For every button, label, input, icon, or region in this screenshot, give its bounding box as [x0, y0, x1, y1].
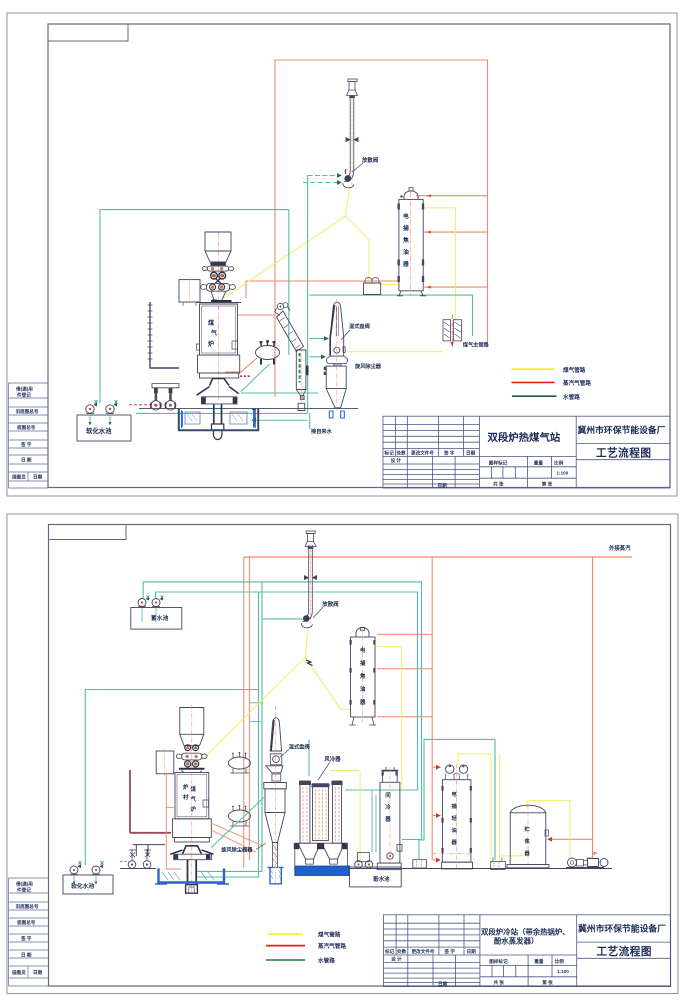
- svg-text:煤: 煤: [191, 785, 197, 793]
- sheet1 legend steam line: [512, 381, 555, 383]
- water to intercooler: [345, 789, 418, 791]
- svg-text:日 期: 日 期: [21, 952, 32, 959]
- svg-text:旧底图总号: 旧底图总号: [16, 408, 39, 415]
- water stubs at downcomers: [250, 703, 262, 722]
- sheet2 outer border: [7, 514, 678, 994]
- steam branch tar tower 3: [377, 716, 432, 718]
- svg-text:借(通)用: 借(通)用: [15, 881, 33, 888]
- gas main label: [463, 341, 490, 349]
- sheet1 outer border: [7, 13, 677, 496]
- svg-text:酚水蒸发器）: 酚水蒸发器）: [494, 937, 538, 946]
- insulated downpipe: [148, 302, 180, 368]
- phenol water pool: [350, 853, 402, 887]
- svg-text:气: 气: [210, 329, 217, 337]
- electric tar precipitator: [397, 188, 426, 296]
- gas blower set: [566, 852, 608, 868]
- svg-text:日 期: 日 期: [21, 457, 32, 464]
- double bell valve assembly: [201, 262, 235, 303]
- wet disc valve 2 label: [280, 743, 310, 758]
- steam branch to storage tank: [548, 838, 593, 840]
- svg-text:湿式盘阀: 湿式盘阀: [289, 743, 310, 751]
- gas pipe V right to tower: [305, 658, 351, 710]
- svg-text:轻: 轻: [452, 814, 458, 822]
- water pipe to flare lower: [303, 182, 341, 184]
- intercooler label: [384, 791, 391, 823]
- svg-text:软化水池: 软化水池: [86, 426, 112, 435]
- svg-text:煤气管路: 煤气管路: [563, 366, 586, 374]
- softened water pool: [77, 415, 131, 441]
- ground line mid: [120, 868, 156, 870]
- furnace gas producer: [196, 303, 241, 379]
- storage tank label: [524, 825, 531, 857]
- svg-text:水管路: 水管路: [562, 393, 580, 401]
- feed valves: [151, 384, 179, 411]
- svg-text:水管路: 水管路: [317, 957, 335, 965]
- svg-text:放散阀: 放散阀: [361, 156, 379, 164]
- water box top right: [419, 739, 495, 860]
- sheet1 top-left box: [48, 24, 128, 41]
- steam branch tar tower 1: [377, 633, 432, 635]
- cyclone assembly 2 spike: [264, 706, 287, 884]
- svg-text:煤: 煤: [208, 319, 214, 327]
- gas pipe tower down to cooler: [375, 646, 402, 790]
- svg-text:风冷器: 风冷器: [324, 755, 341, 763]
- ground line right: [294, 868, 612, 870]
- sheet1 legend water line: [512, 395, 557, 397]
- svg-text:借(通)用: 借(通)用: [15, 386, 33, 393]
- inclined conveyor duct: [275, 303, 304, 352]
- sheet2 title block: [384, 915, 671, 987]
- gas pipe stack downcomer: [224, 186, 350, 298]
- sheet1 legend gas line: [512, 368, 555, 370]
- svg-text:日期: 日期: [33, 474, 43, 481]
- svg-text:冀州市环保节能设备厂: 冀州市环保节能设备厂: [578, 923, 666, 934]
- svg-text:气: 气: [190, 795, 197, 803]
- tap water stub: [309, 413, 311, 429]
- svg-text:煤气管路: 煤气管路: [318, 931, 341, 939]
- furnace 2 body: [173, 773, 212, 843]
- release valve label: [352, 156, 379, 172]
- svg-text:煤气主管路: 煤气主管路: [463, 341, 490, 349]
- water pipe to flare top: [308, 175, 341, 177]
- steam arrow into tower base: [433, 859, 440, 861]
- steam drop at furnace left: [166, 774, 181, 869]
- svg-text:工艺流程图: 工艺流程图: [596, 447, 651, 460]
- air cooler label: [318, 755, 341, 780]
- svg-text:油: 油: [360, 685, 366, 693]
- svg-text:焦: 焦: [402, 236, 409, 244]
- svg-text:蓄水池: 蓄水池: [151, 614, 169, 622]
- water line to flare: [197, 582, 303, 872]
- furnace 2 ash bowl: [170, 846, 213, 893]
- svg-text:间: 间: [385, 791, 391, 799]
- water near pool lines: [372, 790, 376, 852]
- water seal basin 2: [155, 868, 229, 884]
- svg-text:电: 电: [403, 212, 409, 220]
- svg-text:日期: 日期: [33, 969, 43, 976]
- air cooler frame: [294, 781, 348, 867]
- svg-text:酚水池: 酚水池: [373, 875, 390, 883]
- svg-text:器: 器: [524, 849, 531, 857]
- svg-text:器: 器: [451, 838, 458, 846]
- svg-text:器: 器: [384, 815, 391, 823]
- light tar catcher label: [451, 790, 458, 846]
- gas pipe cooler loop: [330, 770, 360, 860]
- water seal tank: [179, 408, 258, 430]
- sheet1 left margin block: [9, 383, 49, 488]
- svg-text:底图总号: 底图总号: [17, 424, 36, 431]
- svg-text:冷: 冷: [385, 803, 391, 811]
- steam drum outlet diagonal: [225, 358, 257, 372]
- svg-text:签 字: 签 字: [20, 441, 32, 448]
- sheet2 inner frame: [49, 525, 671, 987]
- wet disc valve label: [341, 322, 370, 340]
- water main to gas header: [309, 295, 472, 336]
- steam downcomer pair left: [243, 557, 245, 868]
- gas pipe flare V left: [202, 630, 308, 760]
- steam branch long to furnace: [246, 281, 399, 298]
- flare stack: [343, 79, 359, 188]
- flare stack 2: [301, 531, 317, 628]
- steam downcomer right: [586, 557, 593, 858]
- svg-text:捕: 捕: [403, 224, 409, 232]
- svg-text:放散阀: 放散阀: [321, 600, 339, 608]
- svg-text:电: 电: [452, 790, 458, 798]
- gas pipe branch to seal tank: [346, 216, 370, 280]
- steam branch to tar precipitator top: [416, 195, 488, 197]
- pedestal box left: [413, 860, 427, 868]
- svg-text:器: 器: [359, 698, 366, 706]
- furnace 2 centerline: [191, 705, 193, 893]
- tar precipitator 2 label: [359, 646, 366, 706]
- water second downcomer: [197, 592, 259, 877]
- tar precipitator label: [402, 212, 409, 268]
- water arrow into skirt: [309, 356, 325, 358]
- svg-text:焦: 焦: [359, 672, 366, 680]
- svg-text:外接蒸汽: 外接蒸汽: [609, 544, 631, 552]
- waste heat drum lower: [228, 805, 250, 826]
- water main upper: [143, 582, 421, 840]
- water into air cooler: [308, 739, 310, 776]
- sheet1 title block: [383, 416, 670, 488]
- small seal tank: [364, 278, 381, 295]
- water diagonal bowl to drum: [241, 364, 270, 392]
- external steam main: [244, 556, 632, 558]
- steam crossline tower bottom: [432, 853, 471, 855]
- waste heat drum upper: [228, 752, 250, 773]
- pedestal box right: [491, 857, 506, 869]
- svg-text:电: 电: [360, 646, 366, 654]
- svg-text:炉: 炉: [208, 340, 214, 348]
- steam branch tar tower 2: [377, 668, 432, 670]
- coal hopper: [205, 232, 231, 262]
- svg-text:描图员: 描图员: [12, 969, 26, 976]
- gas pipe tar precip bottom: [381, 284, 398, 286]
- gas pipe tank to gas main: [423, 208, 455, 319]
- insulated stub furnace right: [240, 375, 251, 377]
- reservoir pool: [131, 596, 182, 630]
- svg-text:油: 油: [452, 826, 457, 834]
- pool pumps: [86, 400, 118, 426]
- steam arrow into tower side: [433, 815, 440, 817]
- tap water label: [311, 427, 333, 435]
- cyclone dust collector: [324, 366, 347, 418]
- water diagonal basin to cyclone: [211, 798, 263, 848]
- sheet2 legend gas line: [268, 933, 303, 935]
- gas break symbol: [306, 660, 313, 666]
- release valve 2 label: [313, 600, 339, 618]
- furnace side box: [179, 278, 200, 307]
- svg-text:焦: 焦: [525, 837, 531, 845]
- furnace 2 label: [183, 783, 197, 813]
- steam branch to tar precipitator side: [424, 231, 488, 233]
- svg-text:衬: 衬: [183, 793, 189, 801]
- steam downcomer mid: [431, 557, 433, 860]
- svg-text:炉: 炉: [183, 783, 189, 791]
- steam pipe main loop: [275, 60, 488, 397]
- water second run: [252, 419, 308, 421]
- storage tank: [507, 804, 549, 868]
- furnace label: [208, 319, 217, 348]
- air cooler blue base: [295, 866, 350, 876]
- svg-text:双段炉热煤气站: 双段炉热煤气站: [488, 431, 561, 444]
- svg-text:贮: 贮: [525, 825, 531, 833]
- water branch into wet valve: [309, 338, 328, 340]
- electric tar precipitator 2: [349, 628, 376, 726]
- equipment ground line: [139, 408, 358, 410]
- water main lower: [156, 592, 418, 790]
- steam arrow into dome: [432, 766, 440, 768]
- gas offtake cyclone to header: [345, 351, 443, 353]
- svg-text:工艺流程图: 工艺流程图: [597, 945, 652, 958]
- svg-text:件登记: 件登记: [17, 887, 31, 894]
- steam diagonals furnace to cyclone: [211, 823, 263, 852]
- furnace 2 side box: [156, 749, 174, 776]
- coal hopper 2: [180, 708, 204, 746]
- bell valve assembly 2: [176, 745, 207, 773]
- electric light tar catcher: [441, 764, 472, 869]
- svg-text:捕: 捕: [452, 802, 458, 810]
- svg-text:捕: 捕: [360, 659, 366, 667]
- water left loop: [85, 690, 258, 866]
- gas pipe to light tar catcher: [458, 754, 491, 765]
- svg-text:炉: 炉: [191, 805, 197, 813]
- water line bowl to scrubber: [241, 392, 318, 394]
- furnace centerline: [218, 232, 220, 400]
- svg-text:油: 油: [403, 248, 409, 256]
- steam drum: [256, 340, 280, 364]
- svg-text:冀州市环保节能设备厂: 冀州市环保节能设备厂: [578, 424, 666, 435]
- gas pipe tank to blower: [527, 801, 570, 859]
- water downcomer to drum area: [288, 210, 290, 355]
- wet disc valve cyclone: [327, 299, 348, 411]
- furnace ash bowl: [197, 379, 239, 440]
- sheet2 top-left box: [49, 525, 127, 540]
- intercooler tower: [377, 767, 402, 870]
- gas main header valve: [443, 315, 462, 347]
- svg-text:底图总号: 底图总号: [17, 919, 36, 926]
- water riser at stack: [307, 175, 309, 413]
- water bottom run: [136, 412, 308, 414]
- vertical scrubber duct: [296, 348, 308, 411]
- svg-text:签 字: 签 字: [20, 935, 32, 942]
- insulated feed pipe: [130, 770, 171, 833]
- svg-text:器: 器: [402, 260, 409, 268]
- sheet1 inner frame: [48, 24, 670, 488]
- water pipe upper loop: [100, 210, 289, 403]
- sheet2 left margin block: [9, 878, 49, 986]
- softened water pool 2: [63, 861, 113, 894]
- cyclone label: [354, 362, 382, 370]
- gas pipe right riser: [491, 754, 527, 861]
- sheet2 legend steam line: [266, 945, 305, 947]
- svg-text:旋风除尘器器: 旋风除尘器器: [220, 846, 253, 854]
- sheet2 legend water line: [266, 959, 305, 961]
- svg-text:湿式盘阀: 湿式盘阀: [349, 322, 370, 330]
- svg-text:蒸汽气管路: 蒸汽气管路: [318, 942, 346, 950]
- svg-text:件登记: 件登记: [17, 392, 31, 399]
- svg-text:蒸汽气管路: 蒸汽气管路: [563, 379, 591, 387]
- tar precipitator centerline: [410, 192, 412, 296]
- cyclone 2 label: [220, 843, 266, 854]
- svg-text:旋风除尘器: 旋风除尘器: [354, 362, 382, 370]
- steam branch furnace right: [238, 314, 275, 316]
- steam dashed feed left: [129, 404, 160, 406]
- svg-text:双段炉冷站（带余热锅炉、: 双段炉冷站（带余热锅炉、: [481, 928, 570, 937]
- svg-text:描图员: 描图员: [12, 474, 26, 481]
- svg-text:接自来水: 接自来水: [311, 427, 333, 435]
- furnace pumps: [120, 845, 165, 869]
- svg-text:旧底图总号: 旧底图总号: [16, 903, 39, 910]
